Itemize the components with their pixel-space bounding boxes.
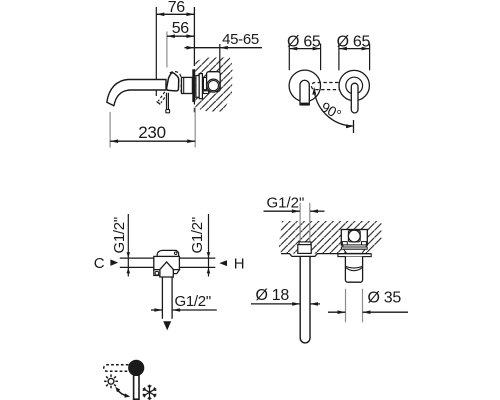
outlet pipe xyxy=(162,277,172,319)
dimension 56 xyxy=(167,20,195,67)
lever alternate position (dashed) xyxy=(157,92,168,105)
svg-text:G1/2": G1/2" xyxy=(111,217,128,253)
valve flange plates xyxy=(341,245,367,254)
in-wall valve body (side view) xyxy=(203,72,220,94)
wall hatch (side view) xyxy=(195,57,232,112)
wall face line xyxy=(193,7,195,116)
pipe fitting xyxy=(298,242,311,254)
outlet flow arrow xyxy=(163,321,171,330)
lever rod (side view) xyxy=(166,93,170,113)
svg-text:76: 76 xyxy=(168,0,186,16)
90 degree rotation arc xyxy=(312,87,353,133)
mixer icon: handle horizontal (dashed) xyxy=(104,365,129,372)
G1/2 label top xyxy=(264,195,325,214)
svg-text:G1/2": G1/2" xyxy=(175,293,211,310)
handle knob alternate position (dashed) xyxy=(170,72,182,92)
svg-text:Ø 35: Ø 35 xyxy=(368,290,402,307)
in-wall valve box (section) xyxy=(341,230,367,246)
handle escutcheon (front view) xyxy=(339,70,369,112)
dimension Ø65 (spout escutcheon) xyxy=(287,33,321,70)
G1/2 label hot side xyxy=(189,214,210,277)
spout pipe (section) xyxy=(300,257,310,343)
supply pipe in wall xyxy=(300,203,310,243)
svg-text:H: H xyxy=(234,256,245,273)
G1/2 label outlet xyxy=(151,293,217,312)
hot inlet pipe xyxy=(179,258,215,267)
mixer valve body (schematic) xyxy=(154,250,180,277)
mixer icon: knob xyxy=(128,360,144,376)
svg-text:C: C xyxy=(94,255,105,272)
handle rotated 90 (dashed) xyxy=(311,82,357,91)
wall hatch (section view) xyxy=(279,221,382,254)
dimension diameter 18 xyxy=(251,287,320,306)
spout (side view) xyxy=(107,80,166,106)
handle knob (side view) xyxy=(167,73,179,91)
escutcheon plate (side view) xyxy=(192,69,202,102)
mixer icon: snowflake (cold) xyxy=(143,385,157,400)
dimension 76 xyxy=(156,0,194,96)
cold label C xyxy=(94,255,118,272)
dimension 230 xyxy=(110,108,195,148)
svg-text:230: 230 xyxy=(138,123,165,142)
spout escutcheon (front view) xyxy=(289,70,320,105)
svg-text:56: 56 xyxy=(172,20,190,37)
svg-text:Ø 65: Ø 65 xyxy=(287,33,321,50)
cartridge cylinder xyxy=(345,257,362,283)
svg-text:G1/2": G1/2" xyxy=(189,217,206,253)
wall bottom edge xyxy=(281,254,371,257)
mixer icon: rotation arrow xyxy=(115,387,130,398)
dimension Ø65 (handle escutcheon) xyxy=(337,33,371,70)
hot label H xyxy=(219,256,244,273)
mixer icon: lever stem xyxy=(134,375,139,399)
cold inlet pipe xyxy=(120,258,154,267)
valve neck xyxy=(182,77,193,93)
G1/2 label cold side xyxy=(111,214,130,277)
svg-text:G1/2": G1/2" xyxy=(267,195,305,212)
mixer icon: sun (hot) xyxy=(104,374,118,388)
svg-text:Ø 65: Ø 65 xyxy=(337,33,371,50)
dimension 45-65 xyxy=(185,31,263,71)
svg-text:45-65: 45-65 xyxy=(222,31,259,48)
dimension diameter 35 xyxy=(328,289,408,323)
svg-text:Ø 18: Ø 18 xyxy=(256,287,290,304)
under-wall cover plate xyxy=(338,254,371,257)
